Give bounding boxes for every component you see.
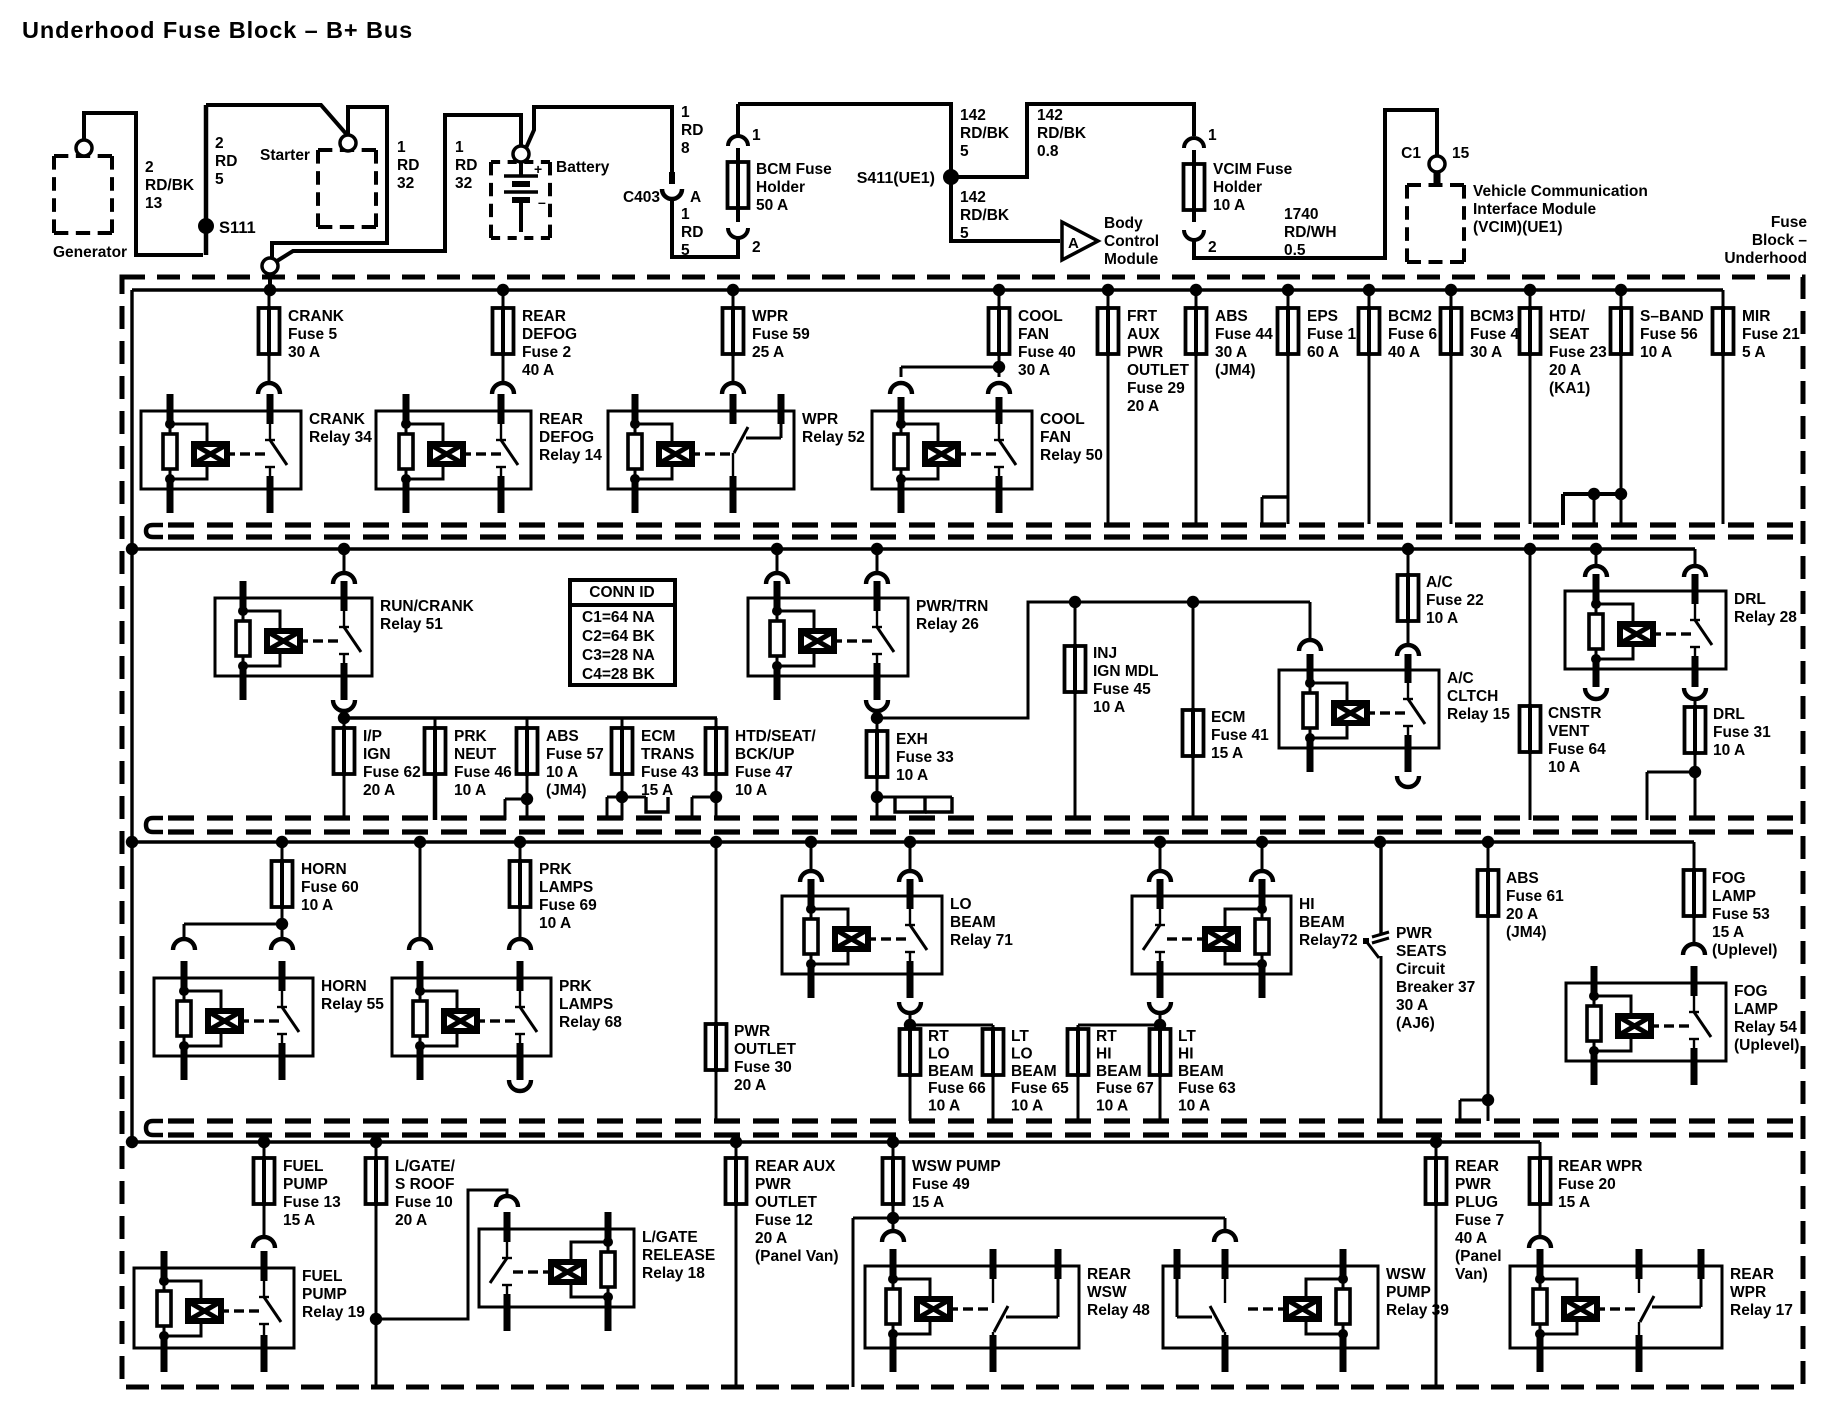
wire label 142 RD/BK 5 upper [960,107,1010,160]
svg-text:2: 2 [1208,239,1217,256]
svg-text:Fuse 1: Fuse 1 [1307,326,1356,343]
fuse Fuse 59 (WPR 25A) [723,290,811,383]
fuse Fuse 20 (REAR WPR 15A) [1530,1142,1643,1237]
svg-text:RD: RD [397,157,419,174]
svg-text:5: 5 [960,143,969,160]
svg-text:PRK: PRK [539,861,573,878]
svg-text:FAN: FAN [1018,326,1049,343]
node S111 [198,105,256,255]
fuse Fuse 7 (REAR PWR PLUG 40A) [1426,1142,1505,1387]
svg-text:Vehicle Communication: Vehicle Communication [1473,183,1648,200]
svg-text:(JM4): (JM4) [1215,362,1255,379]
svg-text:A/C: A/C [1447,670,1474,687]
svg-text:CNSTR: CNSTR [1548,705,1601,722]
svg-text:Breaker 37: Breaker 37 [1396,979,1475,996]
svg-text:Circuit: Circuit [1396,961,1445,978]
svg-text:(KA1): (KA1) [1549,380,1590,397]
svg-text:WPR: WPR [752,308,788,325]
svg-text:1: 1 [681,206,690,223]
svg-text:S111: S111 [219,219,256,237]
svg-text:EXH: EXH [896,731,928,748]
svg-text:RD/WH: RD/WH [1284,224,1337,241]
svg-text:HORN: HORN [301,861,347,878]
relay Relay 15 (A/C CLTCH) [1279,654,1510,772]
wire bus to relay26 pins [766,549,888,584]
svg-text:HTD/SEAT/: HTD/SEAT/ [735,728,816,745]
svg-text:Fuse 44: Fuse 44 [1215,326,1273,343]
title [22,17,413,43]
svg-text:HI: HI [1178,1045,1194,1062]
svg-text:DEFOG: DEFOG [522,326,577,343]
connector below relay71 [899,1002,921,1013]
svg-text:10 A: 10 A [546,764,578,781]
svg-text:142: 142 [960,189,986,206]
svg-text:RD: RD [681,122,703,139]
connector arc fuse59-relay52 [722,383,744,394]
svg-text:COOL: COOL [1040,411,1085,428]
relay Relay 19 (FUEL PUMP) [134,1251,365,1372]
relay Relay 26 (PWR/TRN) [748,581,988,700]
connectors above relay55 [173,924,293,950]
connector C403 [623,172,701,206]
svg-text:Fuse 62: Fuse 62 [363,764,421,781]
wire label 1 RD 32 (starter) [397,139,419,192]
svg-text:ABS: ABS [546,728,579,745]
svg-text:10 A: 10 A [1548,759,1580,776]
relay Relay 71 (LO BEAM) [782,879,1013,998]
svg-text:Relay 48: Relay 48 [1087,1302,1150,1319]
row2 sub-bus from relay51 [338,711,717,724]
svg-text:CRANK: CRANK [309,411,366,428]
svg-text:BCK/UP: BCK/UP [735,746,794,763]
svg-text:REAR: REAR [1730,1266,1774,1283]
fuse Fuse 45 (INJ IGN MDL 10A) [1065,602,1159,820]
relay Relay 39 (WSW PUMP) [1163,1249,1449,1372]
svg-text:Relay 34: Relay 34 [309,429,372,446]
relay Relay 54 (FOG LAMP) [1566,966,1799,1085]
svg-text:5: 5 [960,225,969,242]
svg-text:Fuse 10: Fuse 10 [395,1194,453,1211]
svg-text:BCM Fuse: BCM Fuse [756,161,832,178]
vehicle communication interface module (VCIM)(UE1) [1407,183,1648,262]
separator row3/row4 [146,1121,1801,1135]
wire label 1 RD 8 [681,104,703,157]
fuse Fuse 33 (EXH 10A) [867,718,955,820]
svg-text:Generator: Generator [53,244,127,261]
svg-text:DEFOG: DEFOG [539,429,594,446]
fuse Fuse 2 (REAR DEFOG 40A) [493,290,578,383]
svg-text:40 A: 40 A [522,362,554,379]
svg-text:10 A: 10 A [1096,1098,1128,1115]
svg-text:FUEL: FUEL [283,1158,323,1175]
svg-text:C4=28 BK: C4=28 BK [582,666,656,683]
svg-text:20 A: 20 A [1506,906,1538,923]
svg-text:Body: Body [1104,215,1143,232]
svg-text:2: 2 [215,135,224,152]
relay Relay 17 (REAR WPR) [1510,1249,1793,1372]
svg-text:Fuse 61: Fuse 61 [1506,888,1564,905]
svg-text:Fuse 6: Fuse 6 [1388,326,1437,343]
VCIM fuse holder 10 A [1184,127,1293,256]
connector above relay54 [1683,944,1705,955]
fuse Fuse 6 (BCM2 40A) [1359,290,1438,524]
svg-text:Battery: Battery [556,159,610,176]
svg-text:10 A: 10 A [735,782,767,799]
svg-text:BEAM: BEAM [1011,1063,1057,1080]
svg-text:NEUT: NEUT [454,746,497,763]
svg-text:AUX: AUX [1127,326,1160,343]
svg-text:I/P: I/P [363,728,382,745]
relay Relay 18 (L/GATE RELEASE) [479,1212,715,1331]
relay Relay 50 (COOL FAN) [872,397,1103,513]
wire bus to relay72 [1149,842,1273,882]
row4 bus [126,1136,1540,1148]
svg-text:REAR AUX: REAR AUX [755,1158,836,1175]
svg-text:15 A: 15 A [1712,924,1744,941]
svg-text:Fuse 66: Fuse 66 [928,1080,986,1097]
svg-text:30 A: 30 A [288,344,320,361]
svg-text:S411(UE1): S411(UE1) [857,170,935,187]
svg-text:INJ: INJ [1093,645,1117,662]
svg-text:Fuse 53: Fuse 53 [1712,906,1770,923]
svg-text:Fuse 23: Fuse 23 [1549,344,1607,361]
svg-text:2: 2 [752,239,761,256]
svg-text:Fuse 43: Fuse 43 [641,764,699,781]
relay Relay 51 (RUN/CRANK) [215,581,475,700]
svg-text:10 A: 10 A [1213,197,1245,214]
circuit breaker Breaker 37 (PWR SEATS 30A) [1363,842,1475,1121]
connector above relay19 [253,1237,275,1248]
fuse Fuse 1 (EPS 60A) [1262,290,1356,524]
svg-text:Fuse 60: Fuse 60 [301,879,359,896]
svg-text:CRANK: CRANK [288,308,345,325]
wire cool fan fuse to relay50 pins [890,361,1010,394]
svg-text:VENT: VENT [1548,723,1590,740]
svg-text:SEATS: SEATS [1396,943,1447,960]
relay Relay 68 (PRK LAMPS) [392,961,622,1080]
svg-text:50 A: 50 A [756,197,788,214]
fuse Fuse 29 (FRT AUX PWR OUTLET 20A) [1098,290,1190,524]
svg-text:Fuse 69: Fuse 69 [539,897,597,914]
svg-text:FUEL: FUEL [302,1268,342,1285]
svg-text:REAR: REAR [522,308,566,325]
svg-text:LAMP: LAMP [1712,888,1756,905]
fuse Fuse 53 (FOG LAMP 15A) [1684,842,1778,959]
wire label 1740 RD/WH 0.5 [1284,206,1337,259]
svg-text:1: 1 [752,127,761,144]
svg-text:EPS: EPS [1307,308,1338,325]
svg-text:PWR: PWR [734,1023,770,1040]
svg-text:10 A: 10 A [454,782,486,799]
svg-text:IGN: IGN [363,746,391,763]
fuse Fuse 30 (PWR OUTLET 20A) [706,842,797,1121]
svg-text:1: 1 [681,104,690,121]
fuse Fuse 5 (CRANK 30A) [259,290,345,383]
svg-text:RD/BK: RD/BK [960,207,1010,224]
svg-text:RD/BK: RD/BK [960,125,1010,142]
svg-text:0.8: 0.8 [1037,143,1059,160]
svg-text:+: + [534,161,542,177]
svg-text:15 A: 15 A [1211,745,1243,762]
svg-text:RD: RD [681,224,703,241]
wire generator to S111 [84,113,203,255]
fuse Fuse 57 (ABS 10A) [505,718,604,820]
svg-text:(Panel Van): (Panel Van) [755,1248,839,1265]
svg-text:Relay72: Relay72 [1299,932,1358,949]
relay Relay 48 (REAR WSW) [865,1249,1150,1372]
wire label 2 RD/BK 13 [145,159,195,212]
wire S111 top to starter terminal [206,105,348,136]
svg-text:LO: LO [950,896,972,913]
wire label 1 RD 32 (battery) [455,139,477,192]
svg-text:60 A: 60 A [1307,344,1339,361]
wire bus to relay28 [1585,549,1706,577]
svg-text:2: 2 [145,159,154,176]
fuse Fuse 67 (RT HI BEAM 10A) [1068,1025,1154,1121]
svg-text:WSW PUMP: WSW PUMP [912,1158,1001,1175]
svg-text:REAR: REAR [1455,1158,1499,1175]
svg-text:PRK: PRK [454,728,488,745]
wire label 142 RD/BK 5 lower [960,189,1010,242]
svg-text:PWR: PWR [1455,1176,1491,1193]
svg-text:BEAM: BEAM [1178,1063,1224,1080]
svg-text:L/GATE/: L/GATE/ [395,1158,456,1175]
svg-text:L/GATE: L/GATE [642,1229,698,1246]
fuse Fuse 62 (I/P IGN 20A) [334,718,421,820]
svg-text:10 A: 10 A [1011,1098,1043,1115]
fuse block outer dashed border [122,277,1803,1387]
svg-text:Relay 71: Relay 71 [950,932,1013,949]
svg-text:Fuse 46: Fuse 46 [454,764,512,781]
wire S411 to body control module [951,184,1060,241]
svg-text:10 A: 10 A [928,1098,960,1115]
svg-text:Fuse 13: Fuse 13 [283,1194,341,1211]
svg-text:Relay 54: Relay 54 [1734,1019,1797,1036]
connector above relay18 [496,1196,518,1207]
svg-text:10 A: 10 A [539,915,571,932]
svg-text:10 A: 10 A [301,897,333,914]
svg-text:20 A: 20 A [363,782,395,799]
svg-text:1: 1 [397,139,406,156]
svg-text:Relay 26: Relay 26 [916,616,979,633]
fuse Fuse 31 (DRL 10A) [1647,699,1771,820]
wire C403 to BCM fuse holder [672,197,738,257]
svg-text:PLUG: PLUG [1455,1194,1498,1211]
svg-text:Module: Module [1104,251,1159,268]
svg-text:RUN/CRANK: RUN/CRANK [380,598,475,615]
svg-text:ABS: ABS [1506,870,1539,887]
svg-text:LT: LT [1178,1028,1196,1045]
svg-text:Van): Van) [1455,1266,1488,1283]
svg-text:C2=64 BK: C2=64 BK [582,628,656,645]
svg-text:PUMP: PUMP [1386,1284,1431,1301]
svg-text:Fuse 47: Fuse 47 [735,764,793,781]
svg-text:Fuse 4: Fuse 4 [1470,326,1519,343]
svg-text:HORN: HORN [321,978,367,995]
svg-text:(AJ6): (AJ6) [1396,1015,1435,1032]
svg-text:Fuse 67: Fuse 67 [1096,1080,1154,1097]
wire starter to feed circle [272,107,387,257]
svg-text:20 A: 20 A [755,1230,787,1247]
wire bus to relay51 switch [333,549,355,584]
svg-text:COOL: COOL [1018,308,1063,325]
fuse Fuse 61 (ABS 20A) [1460,842,1564,1121]
svg-text:BEAM: BEAM [1096,1063,1142,1080]
fuse Fuse 12 (REAR AUX PWR OUTLET 20A) [726,1142,839,1387]
svg-text:Fuse: Fuse [1771,214,1808,231]
svg-text:RD: RD [215,153,237,170]
wire S411 to VCIM holder [958,104,1194,177]
svg-text:LAMPS: LAMPS [539,879,593,896]
svg-text:C1=64 NA: C1=64 NA [582,609,655,626]
svg-text:WSW: WSW [1087,1284,1127,1301]
connectors below relay28 [1585,688,1706,699]
fuse Fuse 23 (HTD/SEAT 20A) [1520,290,1608,524]
separator row1/row2 [146,525,1801,537]
connector below relay68 [509,1080,531,1091]
svg-text:Relay 28: Relay 28 [1734,609,1797,626]
label fuse block underhood [1724,214,1807,267]
connector below relay72 [1149,1002,1171,1013]
wire label 1 RD 5 [681,206,703,259]
svg-text:RT: RT [928,1028,949,1045]
svg-text:BCM2: BCM2 [1388,308,1432,325]
svg-text:Underhood: Underhood [1724,250,1807,267]
svg-text:Fuse 31: Fuse 31 [1713,724,1771,741]
svg-text:Relay 17: Relay 17 [1730,1302,1793,1319]
fuse Fuse 44 (ABS 30A) [1186,290,1274,524]
svg-text:RELEASE: RELEASE [642,1247,715,1264]
svg-text:RD/BK: RD/BK [145,177,195,194]
svg-text:40 A: 40 A [1455,1230,1487,1247]
fuse Fuse 22 (A/C 10A) [1398,549,1484,645]
svg-text:1: 1 [455,139,464,156]
svg-text:Fuse 49: Fuse 49 [912,1176,970,1193]
svg-text:PUMP: PUMP [302,1286,347,1303]
svg-text:ECM: ECM [641,728,675,745]
connector arc fuse5-relay34 [258,383,280,394]
svg-text:PUMP: PUMP [283,1176,328,1193]
svg-text:Fuse 22: Fuse 22 [1426,592,1484,609]
svg-text:SEAT: SEAT [1549,326,1590,343]
svg-text:8: 8 [681,140,690,157]
svg-text:Fuse 65: Fuse 65 [1011,1080,1069,1097]
svg-text:1740: 1740 [1284,206,1318,223]
connector arc fuse2-relay14 [492,383,514,394]
svg-text:FOG: FOG [1712,870,1746,887]
svg-text:ABS: ABS [1215,308,1248,325]
fuse Fuse 49 (WSW PUMP 15A) [853,1142,1225,1387]
generator G1 [53,140,127,261]
relay Relay 52 (WPR) [608,394,865,513]
fuse Fuse 47 (HTD/SEAT/BCK/UP 10A) [692,718,816,820]
svg-text:15 A: 15 A [912,1194,944,1211]
svg-text:1: 1 [1208,127,1217,144]
svg-text:IGN MDL: IGN MDL [1093,663,1158,680]
connectors above relay48 and relay39 [882,1231,1236,1242]
svg-text:PRK: PRK [559,978,593,995]
svg-text:BEAM: BEAM [950,914,996,931]
node S411(UE1) [857,169,959,187]
svg-text:10 A: 10 A [1178,1098,1210,1115]
svg-text:Starter: Starter [260,147,310,164]
fuse Fuse 64 (CNSTR VENT 10A) [1520,549,1607,820]
wire label 2 RD 5 [215,135,237,188]
fuse Fuse 60 (HORN 10A) [184,842,359,939]
svg-text:BCM3: BCM3 [1470,308,1514,325]
wire bus to relay68 coil [409,842,531,950]
svg-text:–: – [538,194,546,210]
fuse Fuse 4 (BCM3 30A) [1441,290,1520,524]
svg-text:WPR: WPR [802,411,838,428]
wire label 142 RD/BK 0.8 [1037,107,1087,160]
svg-text:OUTLET: OUTLET [1127,362,1190,379]
wire BCM holder to S411 [738,104,951,170]
svg-text:HI: HI [1299,896,1315,913]
fuse Fuse 40 (COOL FAN 30A) [989,290,1076,379]
fuse Fuse 65 (LT LO BEAM 10A) [983,1025,1070,1121]
svg-text:142: 142 [960,107,986,124]
svg-text:10 A: 10 A [1713,742,1745,759]
svg-text:PWR: PWR [1127,344,1163,361]
svg-text:5: 5 [215,171,224,188]
wire relay26 to EXH fuse and secondary feed [871,596,1310,724]
svg-text:LT: LT [1011,1028,1029,1045]
CONN ID table [570,580,675,685]
relay Relay 14 (REAR DEFOG) [376,394,602,513]
svg-text:BEAM: BEAM [1299,914,1345,931]
svg-text:(Uplevel): (Uplevel) [1712,942,1777,959]
svg-text:PWR/TRN: PWR/TRN [916,598,988,615]
svg-text:CLTCH: CLTCH [1447,688,1498,705]
row1 bus B+ [132,284,1723,1142]
svg-text:LAMPS: LAMPS [559,996,613,1013]
svg-text:TRANS: TRANS [641,746,694,763]
svg-text:WPR: WPR [1730,1284,1766,1301]
relay Relay 55 (HORN) [154,961,384,1080]
svg-text:REAR: REAR [539,411,583,428]
svg-text:32: 32 [455,175,472,192]
svg-text:Holder: Holder [1213,179,1262,196]
svg-text:C1: C1 [1401,145,1421,162]
svg-text:15 A: 15 A [1558,1194,1590,1211]
svg-text:Underhood Fuse Block – B+ Bus: Underhood Fuse Block – B+ Bus [22,17,413,43]
svg-text:Block –: Block – [1752,232,1808,249]
svg-text:Interface Module: Interface Module [1473,201,1597,218]
svg-text:HI: HI [1096,1045,1112,1062]
svg-text:REAR WPR: REAR WPR [1558,1158,1642,1175]
svg-text:20 A: 20 A [734,1077,766,1094]
svg-text:Holder: Holder [756,179,805,196]
svg-text:ECM: ECM [1211,709,1245,726]
fuse Fuse 10 (L/GATE S ROOF 20A) [366,1142,508,1387]
svg-text:FRT: FRT [1127,308,1158,325]
svg-text:Fuse 63: Fuse 63 [1178,1080,1236,1097]
svg-text:Relay 51: Relay 51 [380,616,443,633]
connector C1 pin 15 [1401,145,1469,186]
svg-text:Fuse 59: Fuse 59 [752,326,810,343]
svg-text:10 A: 10 A [896,767,928,784]
svg-text:10 A: 10 A [1426,610,1458,627]
separator row2/row3 [146,818,1801,832]
svg-text:5 A: 5 A [1742,344,1766,361]
svg-text:C3=28 NA: C3=28 NA [582,647,655,664]
wire feed to battery leg [277,115,521,261]
svg-text:(Panel: (Panel [1455,1248,1502,1265]
svg-text:BEAM: BEAM [928,1063,974,1080]
svg-text:30 A: 30 A [1018,362,1050,379]
svg-text:C403: C403 [623,189,660,206]
